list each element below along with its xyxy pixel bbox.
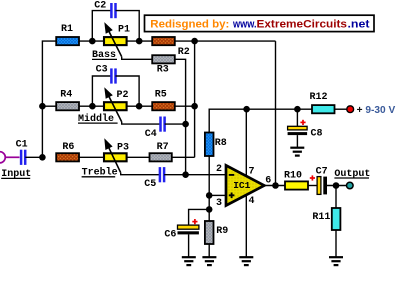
wire rail B xyxy=(194,41,196,157)
svg-text:.net: .net xyxy=(348,18,370,30)
ground R9 xyxy=(202,257,216,265)
resistor R11 xyxy=(332,208,341,230)
resistor R4 xyxy=(56,102,79,110)
wire R1-P1 xyxy=(79,40,104,42)
wire wiper P3 to C5 xyxy=(121,173,160,175)
label Middle xyxy=(78,113,118,125)
svg-text:C2: C2 xyxy=(94,0,106,11)
wire wiper P1 to R3 xyxy=(122,57,153,60)
wire R5 right to rail B xyxy=(175,105,195,107)
label Treble xyxy=(82,167,118,179)
wire rail A lower xyxy=(185,124,187,175)
svg-text:4: 4 xyxy=(249,196,255,207)
pin label 6 xyxy=(265,176,271,187)
wire P3-R7 xyxy=(127,156,150,158)
node feedback output xyxy=(272,182,279,189)
node supply pin7 xyxy=(243,106,250,113)
label Bass xyxy=(92,50,117,61)
label Output xyxy=(334,169,370,180)
resistor R10 xyxy=(285,181,308,189)
label C5 xyxy=(144,179,156,190)
capacitor C2 xyxy=(111,3,115,18)
node pin 3 xyxy=(206,192,213,199)
wire R9 to ground xyxy=(208,244,210,257)
pin label 4 xyxy=(249,196,255,207)
capacitor C3 xyxy=(111,68,115,83)
label C4 xyxy=(145,129,157,140)
label R4 xyxy=(60,89,72,100)
label R11 xyxy=(312,212,330,223)
label R3 xyxy=(157,64,169,75)
svg-text:R5: R5 xyxy=(155,89,167,100)
wire R8 top to supply xyxy=(209,109,246,132)
node C4 rail A xyxy=(182,121,189,128)
wire wiper P2 to C4 xyxy=(122,122,161,124)
node bias xyxy=(206,206,213,213)
ground pin 4 xyxy=(239,257,253,265)
wire R7 right to rail B xyxy=(172,156,195,158)
svg-text:R7: R7 xyxy=(157,142,169,153)
wire C1 to node xyxy=(25,156,42,158)
label P2 xyxy=(117,90,129,101)
svg-text:R10: R10 xyxy=(284,170,302,181)
svg-text:Redisgned by:: Redisgned by: xyxy=(150,18,229,30)
banner box www.ExtremeCircuits.net xyxy=(145,15,375,31)
wire C4 right xyxy=(165,123,186,125)
wire pin3 to bias node xyxy=(208,195,210,209)
svg-text:R1: R1 xyxy=(61,24,73,35)
svg-text:R12: R12 xyxy=(310,92,328,103)
input terminal J1 xyxy=(0,152,19,163)
wire R3 right to rail A xyxy=(175,59,186,124)
node output R11 xyxy=(333,182,340,189)
capacitor C7 xyxy=(317,177,327,195)
label R7 xyxy=(157,142,169,153)
ground C6 xyxy=(182,257,196,265)
wire inverting input pin 2 xyxy=(186,174,225,176)
label R6 xyxy=(62,142,74,153)
label P3 xyxy=(117,143,129,154)
svg-text:R8: R8 xyxy=(215,138,227,149)
wire C2 right xyxy=(116,11,140,41)
ground R11 xyxy=(329,257,343,265)
label R9 xyxy=(216,226,228,237)
label C3 xyxy=(96,64,108,75)
wire left-middle stub xyxy=(42,105,56,107)
op-amp IC1 xyxy=(226,165,264,205)
svg-text:C7: C7 xyxy=(316,166,328,177)
label Input xyxy=(1,169,31,180)
svg-text:ExtremeCircuits: ExtremeCircuits xyxy=(257,18,348,30)
wire C8 top xyxy=(296,109,298,126)
svg-text:P1: P1 xyxy=(118,25,130,36)
svg-text:2: 2 xyxy=(216,164,222,175)
label R1 xyxy=(61,24,73,35)
wire R2 right to feedback xyxy=(175,40,276,42)
svg-text:R2: R2 xyxy=(178,47,190,58)
wire bias to C6 xyxy=(189,209,210,225)
label P1 xyxy=(118,25,130,36)
wire R10 to C7 xyxy=(308,185,317,187)
svg-text:C1: C1 xyxy=(16,139,28,150)
pin label 7 xyxy=(249,166,255,177)
polarity + C7 xyxy=(310,175,315,180)
label R10 xyxy=(284,170,302,181)
wire C3 left xyxy=(92,76,111,106)
capacitor C8 xyxy=(288,126,308,135)
resistor R9 xyxy=(205,221,214,244)
resistor R12 xyxy=(312,105,335,113)
resistor R6 xyxy=(56,153,79,161)
svg-text:7: 7 xyxy=(249,166,255,177)
supply terminal +9-30V xyxy=(347,106,354,113)
svg-text:C4: C4 xyxy=(145,129,157,140)
wire P1-R2 xyxy=(127,40,153,42)
label C6 xyxy=(164,230,176,241)
wiper arrow P3 xyxy=(104,138,120,172)
wire feedback rail xyxy=(275,41,277,185)
label + 9-30 V xyxy=(357,104,396,116)
capacitor C4 xyxy=(161,117,165,132)
potentiometer P2 xyxy=(104,102,127,110)
potentiometer P3 xyxy=(104,153,127,161)
capacitor C5 xyxy=(160,167,164,182)
wire R6-P3 xyxy=(79,156,104,158)
wire C5 right xyxy=(164,174,186,176)
wire R9 top xyxy=(208,209,210,221)
svg-text:P3: P3 xyxy=(117,143,129,154)
wire R11 to ground xyxy=(335,230,337,257)
wire R11 top xyxy=(335,186,337,209)
label C7 xyxy=(316,166,328,177)
svg-text:R6: R6 xyxy=(62,142,74,153)
wiper arrow P2 xyxy=(104,87,121,122)
resistor R1 xyxy=(56,37,79,45)
node C2 left drop xyxy=(89,38,96,45)
svg-text:P2: P2 xyxy=(117,90,129,101)
capacitor C6 xyxy=(178,225,199,234)
wire C3 right xyxy=(116,76,140,106)
wire R4-P2 xyxy=(79,105,104,107)
wire R12 to terminal xyxy=(335,108,347,110)
wire left rail xyxy=(42,41,56,157)
label R12 xyxy=(310,92,328,103)
ground C8 xyxy=(290,148,304,156)
polarity + C6 xyxy=(192,219,197,224)
label R5 xyxy=(155,89,167,100)
output terminal xyxy=(347,182,354,189)
wire C6 to ground xyxy=(188,234,190,257)
svg-text:R4: R4 xyxy=(60,89,72,100)
resistor R7 xyxy=(150,153,172,161)
svg-text:R11: R11 xyxy=(312,212,330,223)
wire P2-R5 xyxy=(127,105,153,107)
node left rail input xyxy=(39,154,46,161)
label R8 xyxy=(215,138,227,149)
node C3 left drop xyxy=(89,103,96,110)
resistor R5 xyxy=(152,102,175,110)
wire R8 bottom xyxy=(208,156,210,195)
wire pin 7 supply xyxy=(245,109,247,175)
node supply C8 xyxy=(294,106,301,113)
capacitor C1 xyxy=(21,150,25,165)
svg-text:IC1: IC1 xyxy=(233,180,250,191)
svg-text:3: 3 xyxy=(216,198,222,209)
wire C2 left xyxy=(92,11,111,41)
pin label 3 xyxy=(216,198,222,209)
label C8 xyxy=(311,128,323,139)
svg-text:R9: R9 xyxy=(216,226,228,237)
node R5 rail xyxy=(191,103,198,110)
potentiometer P1 xyxy=(104,37,127,45)
resistor R8 xyxy=(205,133,214,157)
svg-text:C6: C6 xyxy=(164,230,176,241)
svg-text:R3: R3 xyxy=(157,64,169,75)
label C2 xyxy=(94,0,106,11)
wire pin 4 ground xyxy=(245,195,247,257)
pin label 2 xyxy=(216,164,222,175)
svg-text:C8: C8 xyxy=(311,128,323,139)
label R2 xyxy=(178,47,190,58)
node left-bass xyxy=(0,0,1,1)
wire supply rail xyxy=(247,108,312,110)
svg-text:C5: C5 xyxy=(144,179,156,190)
label C1 xyxy=(16,139,28,150)
wire output pin 6 xyxy=(266,185,285,187)
wiper arrow P1 xyxy=(104,22,121,57)
node P2 right xyxy=(136,103,143,110)
wire pin 3 xyxy=(209,194,225,196)
wire C7 to output xyxy=(327,185,347,187)
node left rail middle xyxy=(39,103,46,110)
polarity + C8 xyxy=(300,120,305,125)
wire C8 to ground xyxy=(296,135,298,148)
svg-text:www.: www. xyxy=(232,18,256,30)
resistor R2 xyxy=(152,37,175,45)
svg-text:C3: C3 xyxy=(96,64,108,75)
resistor R3 xyxy=(152,55,175,63)
node P1 right xyxy=(136,38,143,45)
node R2 rail xyxy=(191,38,198,45)
node pin2 junction xyxy=(182,171,189,178)
svg-text:+ 9-30 V: + 9-30 V xyxy=(357,104,396,116)
